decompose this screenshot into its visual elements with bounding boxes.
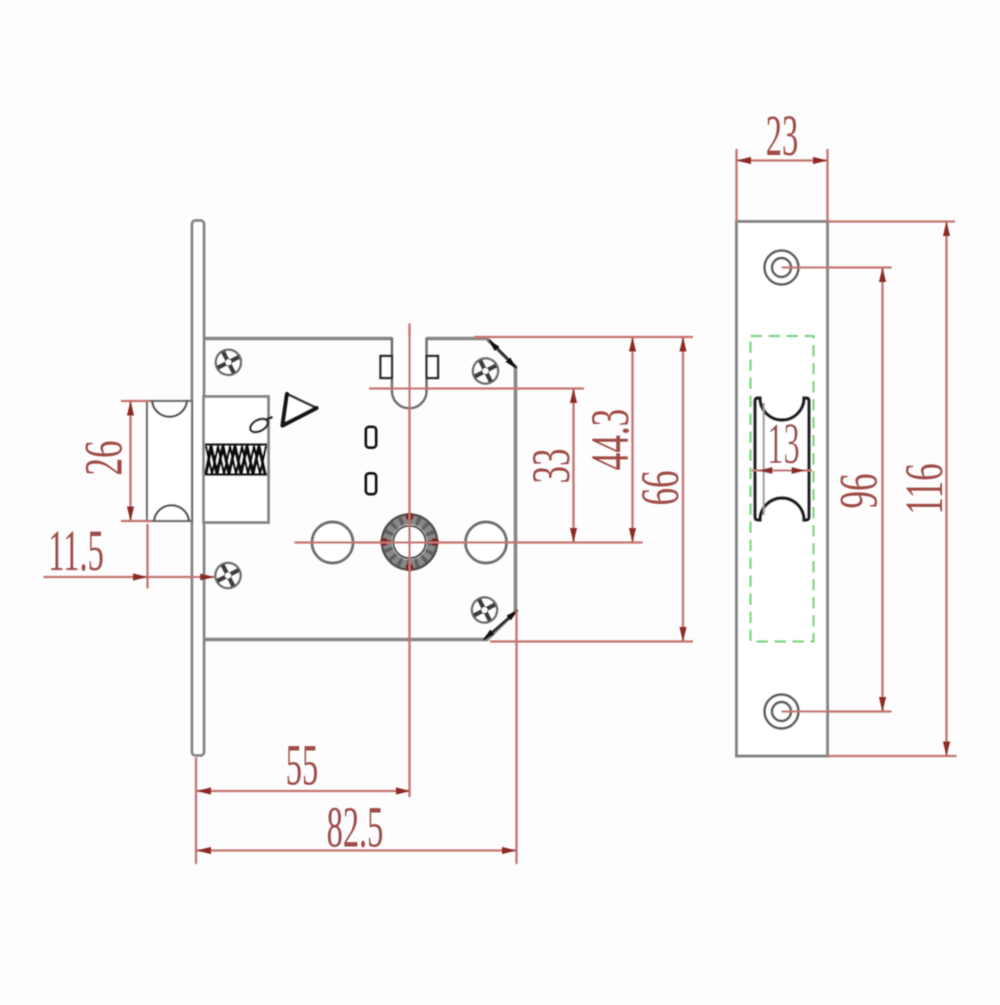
svg-text:44.3: 44.3 — [579, 409, 639, 470]
corner chamfer arrow top-right — [488, 340, 517, 370]
latch bolt head (left of faceplate) — [147, 401, 192, 521]
corner chamfer arrow bottom-right — [483, 610, 519, 641]
latch box inside body — [204, 397, 269, 523]
dimension 11.5 — [44, 519, 215, 588]
dimension 26 — [73, 401, 152, 521]
dimension 55 — [196, 734, 411, 864]
left hole circle — [312, 522, 353, 563]
slot hole 1 — [366, 427, 376, 448]
svg-text:96: 96 — [828, 473, 888, 508]
latch follower cutout U — [392, 338, 427, 409]
dimension 23 — [737, 104, 828, 222]
latch head bottom arc — [154, 505, 189, 521]
plate screw hole top — [765, 251, 799, 285]
spindle hole — [380, 513, 439, 572]
spring zigzag 1 — [206, 446, 265, 474]
left tab on cutout — [381, 356, 393, 378]
screw bottom-left — [212, 560, 244, 592]
dimension 44.3 — [579, 337, 639, 543]
screw top-right — [470, 355, 502, 387]
svg-text:26: 26 — [73, 440, 133, 475]
screw top-left — [213, 346, 245, 378]
svg-text:66: 66 — [629, 470, 689, 505]
svg-text:11.5: 11.5 — [48, 519, 104, 583]
follower horizontal centerline 33-ext — [369, 387, 584, 389]
svg-text:82.5: 82.5 — [327, 796, 384, 860]
spring zigzag 2 — [206, 446, 266, 474]
bottom edge red extension 66 — [490, 640, 693, 642]
dimension 82.5 — [197, 611, 517, 864]
green dashed cutout window — [751, 336, 814, 642]
svg-text:13: 13 — [767, 412, 799, 476]
svg-text:33: 33 — [520, 448, 580, 483]
plate outline — [737, 222, 828, 757]
dimension 13 — [752, 412, 812, 476]
spring top line — [205, 443, 267, 446]
spindle horizontal centerline — [295, 541, 643, 543]
latch opening shape — [755, 398, 809, 520]
dimension 116 — [828, 222, 957, 757]
dimension 66 — [629, 337, 689, 642]
slot hole 2 — [366, 474, 376, 495]
dimension 96 — [782, 268, 892, 712]
latch opening inner gray line — [763, 403, 765, 515]
svg-text:23: 23 — [766, 104, 798, 168]
svg-text:55: 55 — [286, 734, 318, 798]
screw bottom-right — [469, 594, 501, 626]
plate screw hole bottom — [765, 695, 799, 729]
small hook lever — [248, 416, 270, 435]
latch head top arc — [152, 401, 187, 417]
triangle wedge — [283, 394, 317, 426]
lock body outline — [204, 339, 516, 640]
spring bottom line — [205, 473, 267, 476]
right tab on cutout — [427, 356, 439, 378]
follower vertical centerline — [408, 324, 410, 798]
right hole circle — [466, 522, 507, 563]
dimension 33 — [520, 389, 580, 543]
faceplate side view (left vertical plate) — [192, 221, 204, 756]
svg-text:116: 116 — [893, 463, 953, 514]
top edge red extension 44.3/66 — [474, 336, 693, 338]
